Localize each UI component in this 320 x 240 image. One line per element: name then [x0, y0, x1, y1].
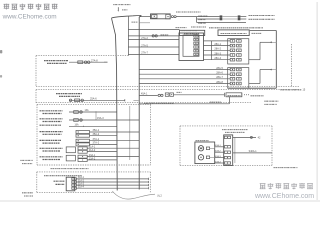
svg-text:28A-5: 28A-5: [216, 67, 223, 70]
svg-text:28A-1: 28A-1: [214, 43, 221, 46]
svg-text:15A-3: 15A-3: [97, 117, 104, 120]
svg-text:28A-4: 28A-4: [214, 57, 221, 60]
svg-text:21A-2: 21A-2: [89, 149, 96, 152]
svg-text:45A-1: 45A-1: [141, 93, 148, 96]
svg-text:23A-2: 23A-2: [89, 157, 96, 160]
svg-text:28A-8: 28A-8: [216, 81, 223, 84]
svg-text:35A-2: 35A-2: [93, 133, 100, 136]
svg-text:31A-4: 31A-4: [78, 186, 85, 189]
svg-text:31A-1: 31A-1: [78, 176, 85, 179]
svg-text:31A-2: 31A-2: [78, 179, 85, 182]
svg-text:27A-5: 27A-5: [141, 44, 148, 47]
svg-text:37A-2: 37A-2: [93, 142, 100, 145]
svg-text:42A-3: 42A-3: [215, 155, 222, 158]
svg-text:www.CEhome.com: www.CEhome.com: [254, 193, 314, 200]
svg-text:28A-2: 28A-2: [214, 48, 221, 51]
svg-text:25A-6: 25A-6: [90, 98, 97, 101]
svg-text:31A-3: 31A-3: [78, 182, 85, 185]
svg-text:35A-1: 35A-1: [93, 129, 100, 132]
svg-text:S40A-1: S40A-1: [249, 150, 258, 153]
svg-text:37A-1: 37A-1: [93, 138, 100, 141]
svg-text:27A-7: 27A-7: [141, 52, 148, 55]
svg-text:28A-7: 28A-7: [216, 76, 223, 79]
svg-text:13A: 13A: [85, 109, 90, 112]
svg-text:42A-2: 42A-2: [215, 150, 222, 153]
svg-text:www.CEhome.com: www.CEhome.com: [2, 13, 57, 20]
svg-text:42A-1: 42A-1: [215, 144, 222, 147]
svg-text:27A-2: 27A-2: [141, 37, 148, 40]
svg-text:16A: 16A: [75, 124, 80, 127]
svg-text:W2: W2: [157, 194, 162, 198]
svg-text:27A-8: 27A-8: [91, 59, 98, 62]
svg-text:28A-3: 28A-3: [214, 52, 221, 55]
svg-text:42A-4: 42A-4: [215, 160, 222, 163]
svg-text:28A-6: 28A-6: [216, 72, 223, 75]
